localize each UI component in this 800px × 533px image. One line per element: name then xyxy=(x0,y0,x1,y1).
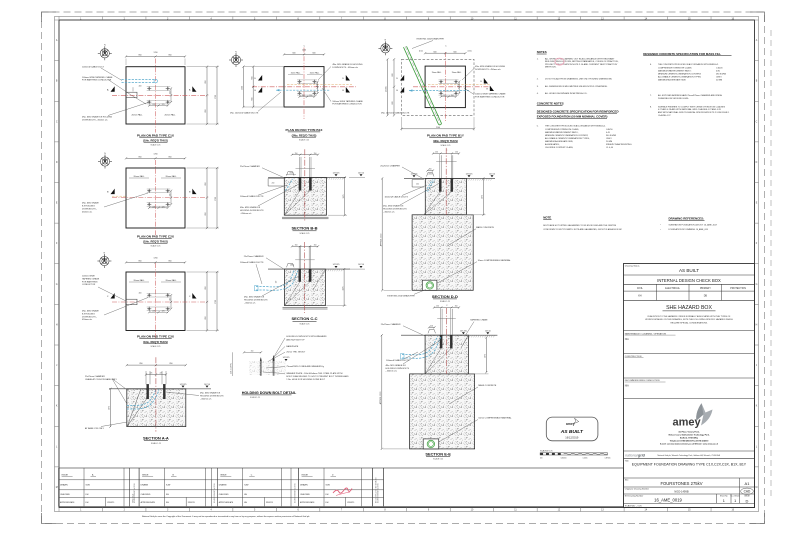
svg-text:SCALE 1:25: SCALE 1:25 xyxy=(151,144,161,147)
svg-text:HOLDING DOWN BOLTS WITH WASHER: HOLDING DOWN BOLTS WITH WASHERS xyxy=(286,335,327,338)
section D-D pedestal xyxy=(425,178,466,214)
section B-B baseplate line xyxy=(296,168,316,170)
svg-text:SECTION E-E: SECTION E-E xyxy=(425,451,451,456)
right dimensions C3X xyxy=(206,272,208,331)
svg-text:(150): (150) xyxy=(468,51,472,53)
svg-text:SCALE 1:25: SCALE 1:25 xyxy=(300,232,310,235)
right dimensions C1X xyxy=(206,67,208,124)
svg-text:COMPRESSIVE STRENGTH CLASS;: COMPRESSIVE STRENGTH CLASS; xyxy=(545,128,579,131)
svg-text:16/12/2019: 16/12/2019 xyxy=(565,435,579,439)
svg-text:DRAWN: DRAWN xyxy=(141,484,149,487)
svg-text:HOLDING DOWN BOLTS: HOLDING DOWN BOLTS xyxy=(200,396,224,398)
svg-text:100mmØ CABLE DUCTS: 100mmØ CABLE DUCTS xyxy=(386,359,410,362)
section B-B centreline xyxy=(304,149,306,220)
svg-text:SHE HAZARD BOX: SHE HAZARD BOX xyxy=(666,305,712,311)
svg-text:CAD: CAD xyxy=(744,489,751,493)
svg-text:225: 225 xyxy=(162,206,165,208)
section D-D chase notch xyxy=(412,180,424,188)
svg-text:SECTION A-A: SECTION A-A xyxy=(143,436,169,441)
svg-text:DOWN BOLTS - 450mm o/s: DOWN BOLTS - 450mm o/s xyxy=(475,69,501,71)
inner drawing frame xyxy=(59,20,755,508)
svg-text:FOURSTONES 275kV: FOURSTONES 275kV xyxy=(660,481,702,486)
svg-text:8.8 HOLDING: 8.8 HOLDING xyxy=(82,313,95,315)
svg-text:4No. M20 GRADE 8.8: 4No. M20 GRADE 8.8 xyxy=(244,296,265,299)
revision block issue C xyxy=(217,468,298,507)
section D-D drain pipe xyxy=(426,282,433,289)
section D-D centreline xyxy=(445,148,447,215)
section D-D top chase trapezoid xyxy=(427,173,435,177)
check box table xyxy=(624,290,755,292)
svg-text:4No. M20 GRADE 8.8: 4No. M20 GRADE 8.8 xyxy=(386,364,407,367)
section B-B top chase trapezoid xyxy=(287,172,295,176)
svg-text:MASS CONCRETE: MASS CONCRETE xyxy=(478,384,496,387)
holding down bolt detail faint ground dots xyxy=(249,361,286,375)
svg-text:AS BUILT: AS BUILT xyxy=(679,268,699,273)
scale row xyxy=(624,502,755,504)
svg-text:(2100): (2100) xyxy=(386,86,388,92)
svg-text:national: national xyxy=(625,453,638,457)
svg-text:SURFACE FINISHES TO COMPLY WIT: SURFACE FINISHES TO COMPLY WITH CESWI 6T… xyxy=(658,105,726,108)
plan view pad type C1X xyxy=(126,67,185,124)
cable route line B1Y (cyan with arrow) xyxy=(409,90,470,92)
bottom dimension B1Y xyxy=(402,128,475,130)
svg-text:(1No. REQ'D THUS): (1No. REQ'D THUS) xyxy=(143,139,168,143)
section C-C blinding xyxy=(283,306,328,308)
section E-E embedded bolts xyxy=(440,335,442,348)
svg-text:4No. M20 GRADE 8.8: 4No. M20 GRADE 8.8 xyxy=(200,392,221,395)
svg-text:PROJECT SPECIFICATION NGTS 2.1: PROJECT SPECIFICATION NGTS 2.10 AND CURR… xyxy=(545,63,618,66)
section markers D/E right B1Y xyxy=(484,78,488,84)
section D-D ground hatch xyxy=(464,178,492,180)
svg-text:ALLOWABLE CEMENT/COMBINATIONS: ALLOWABLE CEMENT/COMBINATIONS TYPES; xyxy=(545,137,590,140)
svg-text:SECTION D-D: SECTION D-D xyxy=(432,294,458,299)
svg-text:100mm WIDE TAPERED CHASE: 100mm WIDE TAPERED CHASE xyxy=(82,76,113,79)
svg-text:20mm FALL: 20mm FALL xyxy=(133,279,145,282)
svg-text:850: 850 xyxy=(205,183,207,186)
section E-E duct curve xyxy=(402,337,438,355)
svg-text:MAXIMUM AGGREGATE SIZE;: MAXIMUM AGGREGATE SIZE; xyxy=(545,140,574,143)
svg-text:1700: 1700 xyxy=(154,154,158,156)
svg-text:225: 225 xyxy=(162,104,165,106)
svg-text:CHLORIDE CONTENT CLASS;: CHLORIDE CONTENT CLASS; xyxy=(545,146,574,149)
note 1 redline cloud xyxy=(555,58,564,65)
section marker C left xyxy=(111,293,115,299)
svg-text:HOLDING DOWN BOLTS: HOLDING DOWN BOLTS xyxy=(383,209,407,211)
svg-text:147.325: 147.325 xyxy=(180,384,187,386)
svg-text:HOLDING DOWN BOLTS: HOLDING DOWN BOLTS xyxy=(386,368,410,370)
svg-text:600: 600 xyxy=(454,51,457,53)
svg-text:BODY FLAN WELDED TO G/S TO PRE: BODY FLAN WELDED TO G/S TO PREVENT BOLT … xyxy=(286,375,349,378)
svg-text:15mm FALL: 15mm FALL xyxy=(452,71,462,74)
svg-text:(1No. REQ'D THUS): (1No. REQ'D THUS) xyxy=(143,340,168,344)
svg-text:FOR EARTHING: FOR EARTHING xyxy=(82,280,98,283)
svg-text:G: G xyxy=(756,284,758,286)
svg-text:SCALE 1:25: SCALE 1:25 xyxy=(299,138,309,141)
grid band numbers bottom xyxy=(59,508,735,512)
right dimensions C2X xyxy=(206,168,208,228)
as built stamp box xyxy=(546,417,598,441)
revision block issue A xyxy=(59,468,140,507)
chase notch C1X xyxy=(126,92,137,98)
section B-B embedded bolts xyxy=(299,177,301,190)
svg-text:PLAN ON PAD TYPE C1X: PLAN ON PAD TYPE C1X xyxy=(137,133,175,137)
svg-text:CHECKED: CHECKED xyxy=(141,494,151,496)
north compass B1X xyxy=(229,53,243,67)
svg-text:SCALE 1:25: SCALE 1:25 xyxy=(433,457,443,460)
svg-text:850: 850 xyxy=(139,156,142,158)
top dimension B1X xyxy=(284,53,324,55)
svg-text:APPROVED/DATE: APPROVED/DATE xyxy=(219,501,234,504)
approval signature issue D (red) xyxy=(333,488,352,493)
svg-text:150: 150 xyxy=(302,95,305,97)
section C-C centreline xyxy=(304,242,306,313)
section markers D/E right B1X xyxy=(346,75,350,81)
svg-text:15mm FALL: 15mm FALL xyxy=(310,71,320,74)
section C-C ground line xyxy=(268,268,350,270)
svg-text:850: 850 xyxy=(169,261,172,263)
svg-text:SCALE(S) :- 1:25: SCALE(S) :- 1:25 xyxy=(625,504,643,507)
section C-C right dimension xyxy=(343,269,345,306)
svg-text:N/A: N/A xyxy=(625,338,629,341)
svg-text:225: 225 xyxy=(170,91,172,94)
section D-D ground line xyxy=(404,177,495,179)
svg-text:1075: 1075 xyxy=(343,195,345,199)
svg-text:IN ADDITION TO THE HAZARDS / R: IN ADDITION TO THE HAZARDS / RISKS NORMA… xyxy=(648,315,731,318)
earthing conductor line B1X (orange) xyxy=(287,84,352,86)
svg-text:20mm FALL: 20mm FALL xyxy=(164,113,176,116)
svg-text:850: 850 xyxy=(205,81,207,84)
svg-text:ISSUE: ISSUE xyxy=(744,496,750,498)
plan view pad type B1Y excavation dashed outline xyxy=(402,59,475,115)
svg-text:N/A: N/A xyxy=(625,385,629,388)
svg-text:(300): (300) xyxy=(429,174,433,176)
section C-C ground hatch xyxy=(326,269,343,271)
section B-B leader diagonals xyxy=(284,190,300,215)
svg-text:CLAUSE 4.27.: CLAUSE 4.27. xyxy=(658,114,671,117)
svg-text:225: 225 xyxy=(170,298,172,301)
svg-text:ISSUE: ISSUE xyxy=(142,474,149,476)
svg-text:TAPERED CHASE: TAPERED CHASE xyxy=(82,277,100,280)
svg-text:NOTES: NOTES xyxy=(537,50,547,54)
section marker A right xyxy=(192,86,196,92)
drawing status row xyxy=(624,274,755,276)
section E-E right dimension xyxy=(485,338,487,373)
svg-text:100mm WIDE TAPERED CHASE: 100mm WIDE TAPERED CHASE xyxy=(332,100,363,103)
section D-D embedded bolts xyxy=(439,178,441,191)
svg-text:FOUNDATION RC DRAWING 16_AME_0: FOUNDATION RC DRAWING 16_AME_026 xyxy=(669,228,709,231)
svg-text:1200: 1200 xyxy=(302,50,306,52)
section A-A left dimension xyxy=(109,389,111,427)
bolts cluster C2X xyxy=(147,188,171,190)
svg-text:4No. M20 GRADE 8.8 HOLDING: 4No. M20 GRADE 8.8 HOLDING xyxy=(475,65,505,68)
svg-text:FIRST ISSUE: FIRST ISSUE xyxy=(133,494,135,503)
svg-text:SCALE 1:25: SCALE 1:25 xyxy=(250,396,260,399)
top dimension C3X xyxy=(126,261,185,263)
svg-text:150: 150 xyxy=(295,153,298,155)
svg-text:MAINTENANCE / CLEANING / O: MAINTENANCE / CLEANING / OPERATION xyxy=(625,332,667,335)
svg-text:150: 150 xyxy=(316,84,318,87)
centrelines C2X xyxy=(155,160,157,236)
svg-text:CEM I: CEM I xyxy=(606,138,612,140)
svg-text:225: 225 xyxy=(162,311,165,313)
plan view pad type C3X xyxy=(126,272,185,331)
svg-text:C40/50: C40/50 xyxy=(606,129,613,131)
svg-text:850: 850 xyxy=(140,363,143,365)
svg-text:AND WITH NATIONAL GRID TECHNIC: AND WITH NATIONAL GRID TECHNICAL SPECIFI… xyxy=(658,111,730,114)
svg-text:Telephone:01785 826010 Fax:01: Telephone:01785 826010 Fax:01785 214919 xyxy=(670,440,709,443)
svg-text:147.325: 147.325 xyxy=(333,264,340,266)
svg-text:600: 600 xyxy=(434,51,437,53)
svg-text:850: 850 xyxy=(205,317,207,320)
svg-text:150: 150 xyxy=(451,95,454,97)
svg-text:1: 1 xyxy=(723,499,725,503)
section D-D drain box xyxy=(422,280,437,290)
svg-text:1700: 1700 xyxy=(215,95,217,99)
svg-text:SCALE 1:25: SCALE 1:25 xyxy=(151,442,161,445)
svg-text:THE CONCRETE PRODUCED IN ACCOR: THE CONCRETE PRODUCED IN ACCORDANCE WITH… xyxy=(545,124,606,127)
svg-text:M: M xyxy=(756,487,758,489)
svg-text:225: 225 xyxy=(160,373,163,375)
section E-E centreline xyxy=(446,308,448,374)
svg-text:AT BASE C3X ONLY: AT BASE C3X ONLY xyxy=(85,427,105,430)
national grid row xyxy=(624,450,755,452)
svg-text:CEM I: CEM I xyxy=(716,76,722,78)
svg-text:EXISTING 225Ø DRAIN PIPE: EXISTING 225Ø DRAIN PIPE xyxy=(417,37,445,40)
svg-text:150: 150 xyxy=(435,152,438,154)
svg-text:100mm WIDE: 100mm WIDE xyxy=(82,276,95,278)
section E-E left tall dimension xyxy=(381,335,383,449)
svg-text:225: 225 xyxy=(152,104,155,106)
svg-text:HOLDING DOWN BOLTS: HOLDING DOWN BOLTS xyxy=(244,300,268,302)
section C-C duct curve xyxy=(256,271,294,287)
svg-text:MINIMUM CEMENT/COMBINATION CON: MINIMUM CEMENT/COMBINATION CONTENT; xyxy=(545,134,589,137)
svg-text:SCALE 1:25: SCALE 1:25 xyxy=(300,322,310,325)
section A-A ground line xyxy=(109,388,211,390)
section D-D baseplate line xyxy=(436,161,456,163)
svg-text:150: 150 xyxy=(436,306,439,308)
holding down bolt detail bolts xyxy=(260,358,261,376)
svg-text:4No. M20 GRADE 8.8: 4No. M20 GRADE 8.8 xyxy=(383,205,404,208)
svg-text:CONDUCTOR: CONDUCTOR xyxy=(82,284,96,286)
svg-text:MAXIMUM WATER/CEMENT RATIO;: MAXIMUM WATER/CEMENT RATIO; xyxy=(658,69,692,72)
section A-A duct curve xyxy=(127,389,156,406)
svg-text:ALLOWABLE CEMENT/COMBINATION T: ALLOWABLE CEMENT/COMBINATION TYPES; xyxy=(658,75,702,78)
svg-text:150: 150 xyxy=(314,153,317,155)
svg-text:WORKS DETAILED ON THIS DRAWING: WORKS DETAILED ON THIS DRAWING, NOTE THE… xyxy=(645,318,733,321)
svg-text:COMPRESSIVE STRENGTH CLASS;: COMPRESSIVE STRENGTH CLASS; xyxy=(658,66,692,69)
svg-text:ISSUE: ISSUE xyxy=(302,474,309,476)
svg-text:147.325: 147.325 xyxy=(333,173,340,175)
svg-text:400: 400 xyxy=(139,85,142,87)
section E-E drain pipe xyxy=(427,440,434,447)
svg-text:100mm WIDE TAPERED CHASE: 100mm WIDE TAPERED CHASE xyxy=(475,92,506,95)
svg-text:EQUIPMENT FOUNDATION DRAWING T: EQUIPMENT FOUNDATION DRAWING TYPE C1X,C2… xyxy=(632,463,747,467)
revision block issue D xyxy=(299,468,384,507)
svg-text:CONFORMS TO BS7371 PART6. NUTS: CONFORMS TO BS7371 PART6. NUTS ARE GALVA… xyxy=(543,228,622,231)
left dimensions B1X xyxy=(252,67,254,107)
section markers D/E left B1Y xyxy=(400,75,404,81)
svg-text:XX/02/19: XX/02/19 xyxy=(347,502,354,504)
section A-A stanchion lines xyxy=(145,371,147,384)
svg-text:G: G xyxy=(56,284,58,286)
svg-text:HOLDING DOWN BOLTS: HOLDING DOWN BOLTS xyxy=(240,210,264,212)
svg-text:200: 200 xyxy=(272,182,275,184)
revision first issue column xyxy=(128,468,130,507)
svg-text:CONCRETE NOTES: CONCRETE NOTES xyxy=(537,102,564,106)
svg-text:200MM BELOW GROUND LEVEL.: 200MM BELOW GROUND LEVEL. xyxy=(658,98,690,100)
svg-text:AGGREGATES;: AGGREGATES; xyxy=(545,143,560,146)
svg-text:1: 1 xyxy=(734,499,736,503)
section B-B bolt top dims xyxy=(292,154,318,156)
svg-text:ALL LEVELS SHOWN ARE IN METRES: ALL LEVELS SHOWN ARE IN METRES A.O.D. xyxy=(545,92,588,95)
svg-text:ISSUE: ISSUE xyxy=(62,474,69,476)
svg-text:Sheet No: Sheet No xyxy=(720,495,728,498)
svg-text:850: 850 xyxy=(139,55,142,57)
svg-text:225: 225 xyxy=(152,206,155,208)
left dimensions B1Y xyxy=(393,59,395,115)
svg-text:850: 850 xyxy=(205,213,207,216)
svg-text:850: 850 xyxy=(139,261,142,263)
section D-D mass concrete xyxy=(412,215,473,290)
svg-text:600: 600 xyxy=(392,102,394,105)
section E-E mass concrete xyxy=(410,374,475,449)
svg-text:850: 850 xyxy=(169,55,172,57)
svg-text:4No. M20 GRADE 8.8: 4No. M20 GRADE 8.8 xyxy=(240,206,261,209)
svg-text:20 MM: 20 MM xyxy=(716,79,722,81)
svg-text:25x25mm CHAMFER: 25x25mm CHAMFER xyxy=(85,375,105,378)
svg-text:DOWN BOLTS - 450mm o/s: DOWN BOLTS - 450mm o/s xyxy=(82,119,108,121)
svg-text:HOLDING DOWN BOLT DETAIL: HOLDING DOWN BOLT DETAIL xyxy=(242,391,297,395)
section C-C top chase trapezoid xyxy=(287,263,295,267)
svg-text:150: 150 xyxy=(251,350,254,352)
svg-text:PLAN ON PAD TYPE B1Y: PLAN ON PAD TYPE B1Y xyxy=(427,134,465,138)
svg-text:SCALE AT 1:25: SCALE AT 1:25 xyxy=(540,450,552,453)
svg-text:INTERNAL DESIGN CHECK BOX: INTERNAL DESIGN CHECK BOX xyxy=(657,278,721,283)
sheet corner marks xyxy=(42,12,57,22)
svg-text:amey: amey xyxy=(566,422,575,426)
svg-text:CL 0,40: CL 0,40 xyxy=(606,147,614,149)
svg-text:1 No. HOLE FOR HOLDING DOWN BO: 1 No. HOLE FOR HOLDING DOWN BOLT xyxy=(286,379,325,381)
svg-text:- 450mm o/s: - 450mm o/s xyxy=(200,398,211,400)
svg-text:PLAN ON PAD TYPE C2X: PLAN ON PAD TYPE C2X xyxy=(137,234,175,238)
svg-text:340 KG/M3: 340 KG/M3 xyxy=(606,135,617,137)
svg-text:- 450mm o/s: - 450mm o/s xyxy=(244,302,255,304)
svg-text:SCALE 1:25: SCALE 1:25 xyxy=(440,300,450,303)
svg-text:A1: A1 xyxy=(745,481,751,486)
svg-text:FOR EARTHING CONDUCTOR: FOR EARTHING CONDUCTOR xyxy=(475,95,505,98)
svg-text:20mm FALL: 20mm FALL xyxy=(165,175,177,178)
scale bar xyxy=(540,450,611,460)
svg-text:225: 225 xyxy=(170,193,172,196)
section B-B ground line xyxy=(268,176,346,178)
north compass B1Y xyxy=(378,41,392,55)
svg-text:147.325: 147.325 xyxy=(283,357,290,359)
svg-text:150: 150 xyxy=(309,95,312,97)
svg-text:FOR EARTHING CONDUCTOR: FOR EARTHING CONDUCTOR xyxy=(82,79,112,82)
svg-text:SJW: SJW xyxy=(86,485,90,487)
svg-text:ELECTRICAL: ELECTRICAL xyxy=(665,287,680,290)
bolts cluster B1X xyxy=(297,79,317,81)
svg-text:1700: 1700 xyxy=(215,197,217,201)
section C-C baseplate line xyxy=(295,259,315,261)
svg-text:100mmØ CABLE DUCTS: 100mmØ CABLE DUCTS xyxy=(240,261,264,264)
north compass C3X xyxy=(97,254,111,268)
svg-text:DRAWN: DRAWN xyxy=(60,484,68,487)
svg-text:4No. M20 GRADE: 4No. M20 GRADE xyxy=(82,202,99,205)
svg-text:CIVIL: CIVIL xyxy=(637,287,644,290)
svg-text:(300): (300) xyxy=(290,173,294,175)
section E-E ground line xyxy=(401,334,497,336)
svg-text:National Grid plc, Warwick Tec: National Grid plc, Warwick Technology Pa… xyxy=(658,454,721,457)
svg-text:XX/02/19: XX/02/19 xyxy=(188,502,195,504)
svg-text:200: 200 xyxy=(416,184,419,186)
svg-text:DB: DB xyxy=(704,294,708,297)
svg-text:100mmØ CABLE DUCTS: 100mmØ CABLE DUCTS xyxy=(385,196,409,199)
section D-D left tall dimension xyxy=(381,178,383,290)
section B-B blinding xyxy=(282,216,329,218)
svg-text:J: J xyxy=(56,365,57,367)
section C-C leader diagonals xyxy=(285,282,301,306)
maintenance row xyxy=(624,329,755,331)
svg-text:SECTION B-B: SECTION B-B xyxy=(292,226,318,231)
section marker A left xyxy=(111,86,115,92)
section E-E bolts above ground xyxy=(440,309,442,335)
svg-text:280 KG/M3: 280 KG/M3 xyxy=(716,73,727,75)
section B-B chase notch xyxy=(268,179,284,187)
svg-text:XX/02/19: XX/02/19 xyxy=(107,502,114,504)
svg-text:XX/02/19: XX/02/19 xyxy=(266,502,273,504)
plan view pad type B1Y pad xyxy=(425,66,465,108)
section C-C embedded bolts xyxy=(299,269,301,282)
section E-E ground hatch xyxy=(469,335,495,337)
svg-text:PLAN ON PAD TYPE B1X: PLAN ON PAD TYPE B1X xyxy=(286,128,324,132)
site row xyxy=(624,477,755,479)
svg-text:850: 850 xyxy=(170,363,173,365)
svg-text:EXISTING 225Ø DRAIN PIPE: EXISTING 225Ø DRAIN PIPE xyxy=(387,294,415,297)
svg-text:PLAN ON PAD TYPE C3X: PLAN ON PAD TYPE C3X xyxy=(137,335,175,339)
svg-text:2100: 2100 xyxy=(436,127,440,129)
svg-text:CHECKED: CHECKED xyxy=(219,494,229,496)
cable route line B1X (cyan with arrow) xyxy=(276,89,330,91)
svg-text:CHECKED: CHECKED xyxy=(300,494,310,496)
section A-A top dimension xyxy=(127,364,186,366)
svg-text:SJW: SJW xyxy=(244,485,248,487)
svg-text:SCALE 1:25: SCALE 1:25 xyxy=(151,245,161,248)
section D-D right dimension xyxy=(482,178,484,214)
existing drain pipe B1Y xyxy=(404,47,439,124)
svg-text:M: M xyxy=(56,487,58,489)
svg-text:25x25mm CHAMFER: 25x25mm CHAMFER xyxy=(381,323,401,326)
svg-text:PRIMARY: PRIMARY xyxy=(700,287,711,290)
section marker B right xyxy=(192,189,196,195)
svg-text:1075: 1075 xyxy=(485,354,487,358)
svg-text:4No. M20 GRADE 8.8 HOLDING: 4No. M20 GRADE 8.8 HOLDING xyxy=(332,63,362,66)
svg-text:147.50: 147.50 xyxy=(358,173,364,175)
section marker B left xyxy=(111,189,115,195)
svg-text:600: 600 xyxy=(251,98,253,101)
grid band letters right xyxy=(755,20,759,489)
internal design check box header xyxy=(624,283,755,285)
section E-E pedestal xyxy=(425,335,468,374)
section B-B right dimension xyxy=(344,177,346,215)
svg-text:(150): (150) xyxy=(419,51,423,53)
svg-text:(2No. REQ'D THUS): (2No. REQ'D THUS) xyxy=(292,133,317,137)
section E-E tapered chase xyxy=(461,335,468,348)
svg-text:- 450mm o/s: - 450mm o/s xyxy=(240,213,251,215)
svg-text:850: 850 xyxy=(169,156,172,158)
section A-A concrete block xyxy=(127,389,186,427)
section A-A chamfer diagonals xyxy=(127,389,141,426)
